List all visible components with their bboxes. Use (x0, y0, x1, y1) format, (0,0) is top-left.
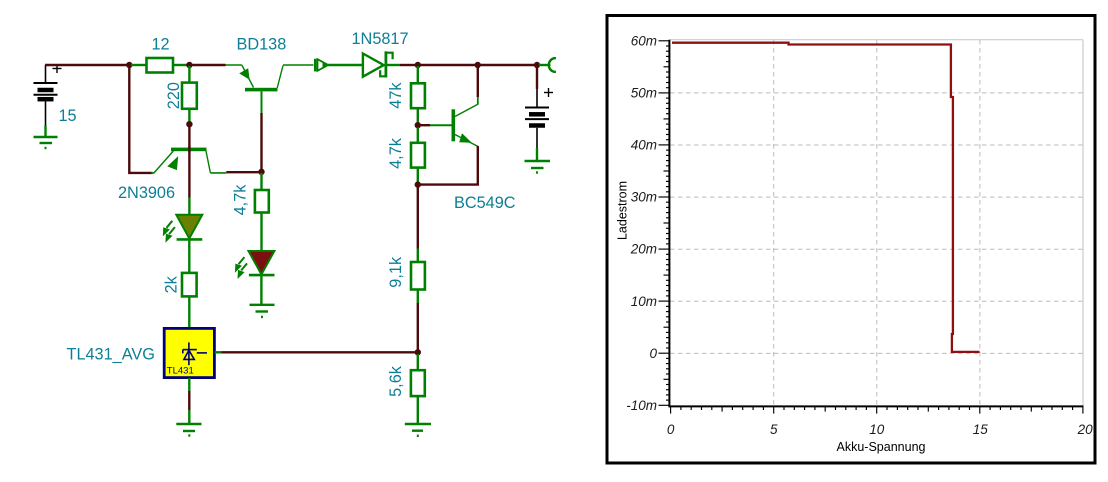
LED D2 (green) (176, 215, 202, 240)
svg-text:BC549C: BC549C (454, 194, 516, 212)
resistor R8 2k (182, 273, 197, 297)
junction J3 (258, 169, 264, 175)
svg-text:15: 15 (59, 107, 77, 125)
junction J10 (415, 181, 421, 187)
LED D3 light arrows (235, 257, 247, 279)
wire J8 to R7 (417, 354, 419, 371)
ground R7 (405, 424, 431, 436)
wire crossing over 2N3906 base bar (188, 147, 190, 153)
wire D2 to R8 (188, 241, 190, 274)
wire R2 to J7 (188, 109, 190, 123)
wire J9 to T3 base (419, 124, 430, 126)
wire probe to D1 (328, 64, 363, 66)
IC U1 TL431 (164, 328, 214, 377)
svg-text:-10m: -10m (626, 398, 657, 413)
svg-text:12: 12 (151, 36, 169, 54)
svg-text:1N5817: 1N5817 (352, 30, 409, 48)
wire R1 to J2 (173, 64, 188, 66)
wire R6 to J8 (417, 290, 419, 304)
svg-text:5: 5 (770, 422, 778, 437)
wire battery B1 to J1 (45, 64, 128, 66)
resistor R7 5,6k (411, 370, 425, 396)
junction J8 (415, 349, 421, 355)
plus sign B2 (544, 88, 553, 97)
x axis (669, 405, 1084, 407)
plot top border (669, 39, 1083, 41)
transistor T3 BC549C (NPN) (452, 104, 478, 146)
wire J4 to J5 (419, 64, 476, 66)
svg-text:47k: 47k (387, 82, 405, 109)
y axis labels (626, 33, 657, 413)
wire R5 to D3 (260, 213, 262, 252)
ground B1 (34, 137, 58, 148)
svg-text:15: 15 (973, 422, 989, 437)
wire T3 emitter down to J10 (420, 146, 478, 185)
svg-text:30m: 30m (631, 190, 657, 205)
wire U1 bottom to ground (188, 378, 190, 391)
wire U1 right pin to J8 (215, 351, 222, 353)
junction J9 (415, 122, 421, 128)
wire T3 collector up to J5 (477, 97, 479, 105)
x axis labels (667, 422, 1093, 437)
svg-text:50m: 50m (631, 85, 657, 100)
wire J5 to J6 (479, 64, 536, 66)
svg-text:60m: 60m (631, 33, 657, 48)
wire J10 down to R6 (417, 186, 419, 249)
y ticks (659, 41, 1083, 414)
wire J3 down to R5 (260, 173, 262, 191)
junction J4 (415, 62, 421, 68)
wire J6 down to battery B2 (536, 66, 538, 89)
wire D1 to J4 (387, 64, 400, 66)
junction J1 (126, 62, 132, 68)
wire D3 to ground (260, 276, 262, 304)
resistor R2 220 (182, 83, 197, 109)
svg-text:20m: 20m (630, 242, 657, 257)
junction J2 (186, 62, 192, 68)
junction J5 (475, 62, 481, 68)
battery B2 (525, 89, 549, 148)
diode D1 1N5817 (schottky) (363, 51, 393, 77)
LED D3 (red) (249, 251, 275, 275)
resistor R5 4,7k (255, 190, 269, 213)
connector output (549, 58, 556, 72)
transistor T2 BD138 (PNP) (226, 65, 314, 113)
wire R8 to U1 (188, 296, 190, 328)
svg-text:BD138: BD138 (237, 36, 287, 54)
wire J2 to BD138 emitter (191, 64, 226, 66)
curve Ladestrom (672, 43, 980, 352)
wire J7 down through 2N3906 base to LED (188, 126, 190, 198)
battery B1 (34, 65, 58, 126)
svg-text:10m: 10m (631, 294, 657, 309)
wire J6 to connector (539, 64, 551, 66)
wire 2N3906 collector to J3 (226, 171, 259, 173)
svg-text:0: 0 (667, 422, 675, 437)
plus sign B1 (53, 64, 62, 73)
ground D3 (250, 305, 275, 317)
resistor R4 4,7k (411, 143, 425, 168)
wire J2 down to R2 (188, 66, 190, 83)
ground B2 (525, 161, 551, 173)
LED D2 light arrows (163, 221, 175, 243)
plot right border (1082, 40, 1084, 407)
junction J6 (534, 62, 540, 68)
wire J9 to R4 (417, 127, 419, 143)
wire R7 to ground (417, 396, 419, 423)
resistor R3 47k (411, 83, 425, 108)
wire J4 down to R3 (417, 66, 419, 84)
wire B1 lead to ground (44, 126, 46, 137)
svg-text:2k: 2k (163, 275, 181, 293)
svg-text:0: 0 (649, 346, 657, 361)
wire R4 to J10 (417, 168, 419, 183)
y axis (668, 40, 670, 408)
wire J1 down and right to 2N3906 emitter (129, 66, 152, 173)
wire BD138 collector down to J3 (260, 113, 262, 169)
chart frame (607, 16, 1095, 464)
wire B2 lead to ground (536, 148, 538, 160)
junction J7 (186, 121, 192, 127)
svg-text:2N3906: 2N3906 (118, 184, 175, 202)
svg-text:20: 20 (1077, 422, 1094, 437)
current arrow probe (315, 59, 328, 72)
transistor T1 2N3906 (PNP) (151, 148, 226, 173)
resistor R1 12 (147, 58, 174, 73)
svg-text:220: 220 (165, 82, 183, 109)
wire J1 to R1 (131, 64, 147, 66)
svg-text:5,6k: 5,6k (387, 365, 405, 397)
svg-text:TL431_AVG: TL431_AVG (67, 346, 155, 364)
svg-text:4,7k: 4,7k (232, 184, 250, 216)
svg-text:Akku-Spannung: Akku-Spannung (837, 440, 926, 454)
svg-text:9,1k: 9,1k (387, 256, 405, 288)
svg-text:TL431: TL431 (167, 366, 194, 377)
svg-text:4,7k: 4,7k (387, 137, 405, 169)
gridlines horizontal (670, 93, 1083, 354)
gridlines vertical (774, 40, 980, 406)
wire R3 to J9 (417, 108, 419, 123)
svg-text:Ladestrom: Ladestrom (616, 181, 630, 240)
resistor R6 9,1k (411, 262, 425, 290)
ground U1 (176, 424, 201, 436)
svg-text:10: 10 (869, 422, 885, 437)
svg-text:40m: 40m (631, 138, 657, 153)
